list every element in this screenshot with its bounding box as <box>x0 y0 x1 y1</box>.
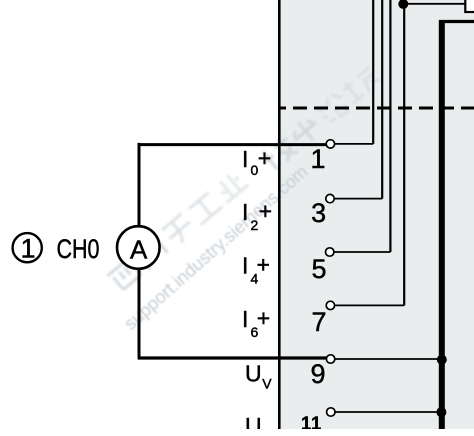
junction dot top (Uv supply node) <box>398 0 408 9</box>
svg-text:+: + <box>258 145 271 171</box>
门 <box>135 236 169 270</box>
external circuit: bottom wire to terminal 9 <box>138 356 327 359</box>
svg-text:U: U <box>245 361 262 387</box>
svg-text:I: I <box>242 306 248 332</box>
label I4+ <box>242 251 270 286</box>
wire: top horizontal to supply box <box>404 3 466 5</box>
wire: terminal 1 horizontal <box>331 143 373 145</box>
label I6+ <box>242 305 270 340</box>
label I2+ <box>242 198 272 233</box>
svg-text:1: 1 <box>20 233 35 263</box>
terminal 5 circle <box>326 248 334 256</box>
terminal 9 circle <box>326 355 334 363</box>
svg-text:I: I <box>242 199 248 225</box>
技 术 <box>259 113 324 173</box>
svg-text:CH0: CH0 <box>57 234 100 264</box>
工 <box>188 192 222 225</box>
wire: terminal 5 horizontal <box>330 251 390 253</box>
业 <box>213 169 248 203</box>
wire: terminal 1 vertical riser <box>372 0 374 144</box>
external circuit: left wire upper <box>138 143 141 227</box>
ammeter A1 circle <box>117 226 160 269</box>
svg-text:I: I <box>242 253 248 279</box>
supply source box (top right, cut off) <box>465 0 474 12</box>
terminal 11 circle <box>327 408 335 416</box>
svg-text:A: A <box>130 234 148 264</box>
svg-text:5: 5 <box>311 254 326 284</box>
svg-text:+: + <box>259 198 272 224</box>
module left border <box>278 0 281 430</box>
wire: terminal 5 vertical riser <box>389 0 391 252</box>
svg-text:+: + <box>257 305 270 331</box>
label I0+ <box>242 145 271 178</box>
terminal 1 circle <box>326 140 334 148</box>
svg-text:1: 1 <box>310 144 325 174</box>
external circuit: left wire lower <box>138 269 141 358</box>
junction dot terminal 9 on bus <box>437 355 447 365</box>
svg-text:+: + <box>257 251 270 277</box>
internal block top edge <box>439 20 474 23</box>
watermark band 1 (Chinese glyph marks) <box>107 168 250 294</box>
label Uv <box>245 361 272 392</box>
channel marker circle 1 <box>13 233 42 262</box>
terminal 3 circle <box>326 194 334 202</box>
watermark band 1b (Chinese glyph marks, in module area) <box>259 65 382 174</box>
svg-text:V: V <box>262 376 272 392</box>
module background area <box>279 0 474 430</box>
bottom white margin cover <box>0 429 474 436</box>
论 坛 <box>315 65 382 126</box>
dashed separator line <box>279 107 474 110</box>
external circuit: top wire to terminal 1 <box>138 143 327 146</box>
wire: terminal 3 vertical riser <box>381 0 383 199</box>
wire: terminal 9 to internal bus <box>331 358 442 360</box>
svg-text:I: I <box>242 146 248 172</box>
svg-text:7: 7 <box>311 307 326 337</box>
terminal 7 circle <box>326 301 334 309</box>
wire: terminal 7 horizontal <box>330 304 404 306</box>
wire: terminal 7 vertical riser <box>403 0 405 305</box>
internal block thick left edge <box>439 20 445 430</box>
wire: terminal 3 horizontal <box>330 198 382 200</box>
wire: terminal 11 to internal bus <box>331 411 442 413</box>
watermark latin line <box>120 161 311 334</box>
西 <box>107 258 141 292</box>
junction dot terminal 11 on bus <box>436 407 446 417</box>
svg-text:3: 3 <box>311 198 326 228</box>
svg-text:9: 9 <box>310 359 325 389</box>
子 <box>162 213 197 248</box>
svg-text:2: 2 <box>251 217 259 233</box>
